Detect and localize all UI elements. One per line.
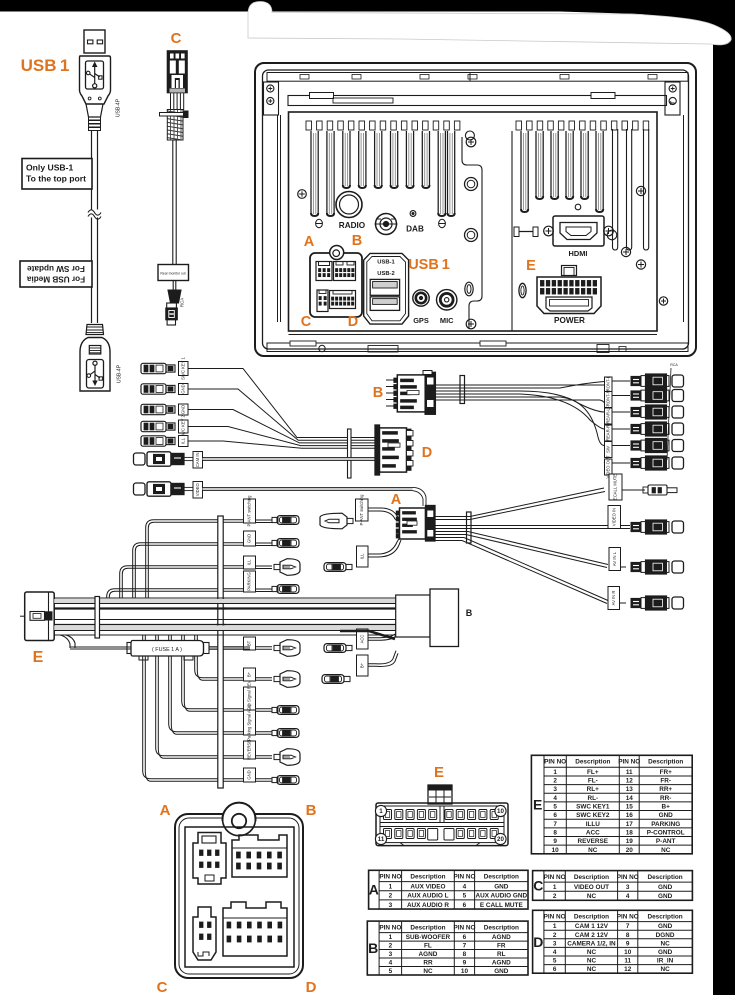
mating terminal B+	[322, 675, 344, 684]
connector B (rear)	[334, 262, 356, 281]
pin table C	[533, 871, 693, 901]
svg-text:For SW update: For SW update	[27, 264, 85, 273]
svg-text:Description: Description	[410, 873, 445, 880]
svg-text:NC: NC	[587, 893, 597, 900]
svg-text:SUB-WOOFER: SUB-WOOFER	[406, 934, 451, 941]
svg-text:E: E	[33, 649, 44, 666]
RCA plug (C cable)	[168, 290, 181, 303]
clip after B	[460, 376, 465, 404]
B pin stubs	[386, 379, 394, 381]
lead AV IN L	[609, 548, 621, 571]
svg-text:11: 11	[624, 958, 631, 965]
DAB jack	[376, 214, 397, 235]
svg-text:RL-: RL-	[587, 795, 598, 802]
USB port 2	[370, 297, 399, 311]
USB housing	[364, 253, 409, 324]
svg-text:5: 5	[463, 893, 467, 900]
bracket icon	[518, 228, 535, 236]
svg-text:3: 3	[626, 884, 630, 891]
svg-text:4: 4	[389, 960, 393, 967]
svg-text:VIDEO IN: VIDEO IN	[611, 508, 616, 526]
svg-text:SWC KEY1: SWC KEY1	[576, 804, 610, 811]
svg-text:ILLU: ILLU	[586, 821, 601, 828]
svg-text:ACC: ACC	[586, 829, 600, 836]
svg-text:AUX AUDIO L: AUX AUDIO L	[407, 893, 448, 900]
svg-text:ILL: ILL	[247, 559, 252, 565]
svg-text:B+: B+	[662, 804, 671, 811]
svg-text:NC: NC	[588, 847, 598, 854]
note box: Only USB-1 To the top port	[22, 159, 92, 190]
svg-text:AGND: AGND	[492, 934, 511, 941]
connector A (harness)	[400, 508, 426, 539]
svg-text:3: 3	[389, 951, 393, 958]
svg-text:RADIO: RADIO	[339, 221, 366, 230]
svg-text:GND: GND	[658, 923, 673, 930]
mating terminal P-CONT	[320, 513, 347, 529]
fuse lead	[60, 635, 70, 648]
svg-text:USB 1: USB 1	[21, 56, 70, 75]
left RCA lead 1	[134, 453, 146, 465]
lead PARKING	[244, 571, 256, 592]
svg-text:PIN NO: PIN NO	[617, 874, 639, 881]
svg-text:PIN NO: PIN NO	[453, 924, 475, 931]
svg-text:B+: B+	[247, 671, 252, 677]
connector D (harness)	[375, 425, 380, 475]
svg-text:MIC: MIC	[440, 316, 454, 325]
pin table D	[533, 910, 693, 973]
ISO connector D	[223, 902, 287, 956]
wire	[172, 281, 174, 291]
svg-text:DGND: DGND	[656, 932, 675, 939]
svg-text:13: 13	[626, 786, 634, 793]
connector E (harness)	[25, 592, 55, 641]
svg-text:RR+: RR+	[659, 786, 672, 793]
svg-text:SW: SW	[605, 446, 610, 453]
RCA lead REAR-R	[605, 425, 613, 441]
svg-text:E: E	[526, 258, 536, 274]
RCA lead FRONT-R	[605, 392, 613, 408]
taped bundle (hatched)	[167, 110, 183, 141]
svg-text:8: 8	[626, 932, 630, 939]
terminal lead 5	[141, 436, 166, 446]
svg-text:IR_IN: IR_IN	[657, 958, 674, 965]
top mounting rail	[288, 96, 667, 106]
svg-text:A: A	[391, 492, 402, 508]
USB port 1	[370, 279, 399, 295]
svg-text:GND: GND	[658, 893, 673, 900]
mating terminal ILL	[324, 563, 346, 572]
svg-text:HDMI: HDMI	[569, 249, 588, 258]
svg-text:FR+: FR+	[660, 769, 673, 776]
svg-text:CAM IN: CAM IN	[195, 452, 200, 467]
RCA lead SW	[605, 442, 613, 458]
lead VIDEO IN	[608, 506, 621, 529]
svg-text:1: 1	[553, 884, 557, 891]
svg-text:11: 11	[378, 836, 385, 843]
svg-text:20: 20	[497, 836, 504, 843]
svg-text:4: 4	[463, 883, 467, 890]
GPS jack	[413, 290, 429, 306]
svg-text:ILL: ILL	[180, 437, 185, 443]
svg-text:Description: Description	[648, 874, 683, 881]
svg-text:9: 9	[553, 838, 557, 845]
fuse holder ( FUSE 1 A )	[127, 643, 133, 654]
svg-text:1: 1	[389, 883, 393, 890]
connector A (rear)	[316, 262, 332, 281]
svg-text:PIN NO: PIN NO	[379, 873, 401, 880]
svg-text:9: 9	[463, 960, 467, 967]
svg-text:AUX VIDEO: AUX VIDEO	[410, 883, 445, 890]
svg-text:6: 6	[463, 934, 467, 941]
svg-text:RL+: RL+	[587, 786, 600, 793]
svg-text:FR-: FR-	[660, 778, 671, 785]
svg-text:16: 16	[626, 812, 634, 819]
svg-text:VIDEO: VIDEO	[195, 482, 200, 496]
svg-text:10: 10	[624, 949, 632, 956]
ISO connector B	[232, 835, 287, 877]
svg-text:5: 5	[553, 804, 557, 811]
screw left panel	[298, 190, 307, 199]
svg-text:10: 10	[497, 808, 504, 815]
svg-text:E: E	[533, 797, 542, 813]
svg-text:1: 1	[379, 808, 383, 815]
svg-text:CAM 2 12V: CAM 2 12V	[575, 932, 609, 939]
left RCA lead 2	[134, 483, 146, 495]
right panel screws	[636, 186, 645, 195]
svg-text:4: 4	[553, 795, 557, 802]
svg-text:( FUSE 1 A ): ( FUSE 1 A )	[152, 647, 182, 653]
MIC jack	[437, 290, 457, 310]
wire to GND lead	[133, 543, 243, 598]
svg-text:C: C	[157, 979, 168, 995]
svg-text:Description: Description	[574, 913, 609, 920]
svg-text:17: 17	[626, 821, 634, 828]
svg-text:ACC: ACC	[359, 635, 364, 644]
lead P-ANT switching	[244, 499, 256, 523]
svg-text:GPS: GPS	[413, 316, 429, 325]
wires A to AV leads	[435, 488, 604, 517]
svg-text:1: 1	[389, 934, 393, 941]
svg-text:2: 2	[553, 932, 557, 939]
lead B+	[195, 635, 243, 678]
middle recessed strip	[462, 137, 482, 329]
lead Parking Signal ACC	[169, 635, 243, 732]
clip after A	[467, 512, 472, 543]
right page black strip	[713, 0, 735, 995]
wire (C cable)	[172, 140, 174, 264]
svg-text:BT: BT	[247, 640, 252, 646]
svg-text:5: 5	[553, 958, 557, 965]
svg-text:9: 9	[626, 940, 630, 947]
lead ECALL MUTE	[609, 474, 622, 500]
svg-text:NC: NC	[661, 847, 671, 854]
svg-text:USB-1: USB-1	[377, 260, 395, 266]
B box	[396, 595, 430, 637]
RCA lead FRONT-L	[605, 377, 613, 393]
svg-text:Rear monitor out: Rear monitor out	[160, 272, 185, 276]
connector block A/B/C/D	[310, 253, 362, 317]
svg-text:To the top port: To the top port	[26, 174, 86, 184]
svg-text:NC: NC	[587, 966, 597, 973]
connector D (rear)	[330, 291, 356, 309]
svg-text:19: 19	[626, 838, 634, 845]
svg-text:PARKING: PARKING	[247, 572, 252, 591]
svg-text:GND: GND	[659, 812, 674, 819]
svg-text:E CALL MUTE: E CALL MUTE	[480, 902, 524, 909]
svg-text:P-ANT switching: P-ANT switching	[359, 494, 364, 526]
svg-text:NC: NC	[660, 940, 670, 947]
trunk crossing loom	[217, 599, 226, 603]
svg-text:B: B	[368, 940, 378, 956]
svg-text:7: 7	[626, 923, 630, 930]
terminal lead 4	[141, 421, 166, 431]
svg-text:B: B	[373, 385, 383, 401]
main rear panel	[289, 112, 658, 331]
svg-text:Description: Description	[575, 759, 610, 766]
wires B to RCA fan	[436, 384, 600, 386]
label box: rear monitor out	[158, 265, 189, 281]
svg-text:USB 1: USB 1	[408, 257, 450, 273]
svg-text:PIN NO: PIN NO	[544, 759, 566, 766]
heatsink fins left	[311, 131, 455, 216]
svg-text:AUX AUDIO R: AUX AUDIO R	[407, 902, 449, 909]
lead GND	[244, 531, 256, 546]
RCA lead REAR-L	[605, 408, 613, 424]
lead BT	[209, 646, 243, 648]
svg-text:A: A	[369, 882, 379, 898]
svg-text:1: 1	[553, 923, 557, 930]
svg-text:C: C	[171, 30, 182, 47]
svg-text:CAMERA 1/2, IN: CAMERA 1/2, IN	[567, 940, 616, 947]
chassis top thin bar	[267, 73, 688, 82]
terminal lead 1	[141, 363, 166, 373]
page header black band	[0, 0, 735, 12]
svg-text:NC: NC	[660, 966, 670, 973]
E pins row 2	[384, 829, 392, 839]
svg-text:AUX AUDIO GND: AUX AUDIO GND	[475, 893, 527, 900]
terminal lead 2	[141, 384, 166, 394]
connector C (rear)	[317, 290, 328, 312]
svg-text:POWER: POWER	[554, 316, 585, 325]
svg-text:Description: Description	[648, 759, 683, 766]
svg-text:A: A	[160, 802, 171, 819]
svg-text:SWC KEY 2: SWC KEY 2	[180, 414, 185, 437]
svg-text:DAB: DAB	[406, 225, 424, 234]
svg-text:10: 10	[552, 847, 560, 854]
svg-text:PIN NO: PIN NO	[618, 759, 640, 766]
svg-text:15: 15	[626, 804, 634, 811]
svg-text:ILL: ILL	[359, 553, 364, 559]
svg-text:B+: B+	[359, 662, 364, 668]
svg-text:2: 2	[553, 778, 557, 785]
wire to P-ANT switching lead	[146, 520, 243, 598]
svg-text:REAR-L: REAR-L	[605, 408, 610, 424]
svg-text:6: 6	[553, 812, 557, 819]
svg-text:8: 8	[553, 829, 557, 836]
svg-text:AV IN R: AV IN R	[611, 591, 616, 606]
wire to PARKING lead	[107, 589, 243, 598]
svg-text:3: 3	[553, 786, 557, 793]
svg-text:4: 4	[626, 893, 630, 900]
svg-text:Description: Description	[574, 874, 609, 881]
svg-text:PIN NO: PIN NO	[544, 874, 566, 881]
svg-text:12: 12	[624, 966, 632, 973]
svg-text:PARKING: PARKING	[651, 821, 680, 828]
svg-text:RCA: RCA	[180, 298, 185, 307]
E pins row 1	[384, 810, 392, 820]
svg-text:FL-: FL-	[588, 778, 598, 785]
svg-text:REVERSE: REVERSE	[247, 740, 252, 760]
svg-text:REAR-R: REAR-R	[605, 425, 610, 441]
svg-text:PIN NO: PIN NO	[544, 913, 566, 920]
bottom rail	[289, 334, 658, 336]
svg-text:GND: GND	[658, 949, 673, 956]
wire	[188, 441, 376, 448]
svg-text:14: 14	[626, 795, 634, 802]
svg-text:Only USB-1: Only USB-1	[26, 163, 73, 173]
svg-text:B: B	[352, 233, 362, 249]
cable tie pin	[160, 113, 184, 117]
svg-text:GND: GND	[494, 883, 509, 890]
svg-text:FL: FL	[424, 943, 432, 950]
svg-text:2: 2	[389, 893, 393, 900]
USB cable strain relief	[86, 104, 103, 117]
svg-text:C: C	[301, 314, 312, 330]
svg-text:8: 8	[463, 951, 467, 958]
svg-text:RR: RR	[423, 960, 433, 967]
RADIO antenna jack	[336, 192, 362, 218]
svg-text:USB-2: USB-2	[377, 271, 394, 277]
mount bracket screws top-left	[264, 82, 279, 115]
connector C cable head	[168, 51, 188, 93]
svg-text:PIN NO: PIN NO	[379, 924, 401, 931]
svg-text:18: 18	[626, 829, 634, 836]
svg-text:AGND: AGND	[419, 951, 438, 958]
svg-text:A: A	[304, 234, 315, 250]
svg-text:11: 11	[626, 769, 633, 776]
trunk wires	[54, 599, 396, 603]
svg-text:10: 10	[461, 968, 469, 975]
svg-text:7: 7	[463, 943, 467, 950]
HDMI port	[553, 216, 604, 246]
svg-text:GND: GND	[180, 384, 185, 393]
hole above HDMI	[575, 204, 581, 210]
svg-text:P-ANT: P-ANT	[656, 838, 676, 845]
ISO connector C	[193, 907, 216, 960]
wire	[188, 427, 376, 446]
svg-text:4: 4	[553, 949, 557, 956]
vertical loom	[218, 516, 223, 788]
small oval screws	[316, 219, 323, 227]
lead REVERSE	[156, 635, 243, 756]
svg-text:PIN NO: PIN NO	[617, 913, 639, 920]
svg-text:GND: GND	[658, 884, 673, 891]
wire (USB cable)	[91, 131, 93, 324]
ISO connector A	[193, 833, 226, 885]
wires from C head	[170, 93, 172, 110]
terminal lead 3	[141, 404, 166, 414]
svg-text:ECALL MUTE: ECALL MUTE	[613, 474, 618, 500]
USB-A male connector	[80, 30, 111, 104]
wire	[188, 410, 376, 443]
svg-text:20: 20	[626, 847, 634, 854]
heatsink comb row	[306, 121, 649, 130]
pin table E	[531, 755, 692, 854]
svg-text:NC: NC	[587, 958, 597, 965]
lead Back-up Signal REV	[182, 635, 243, 709]
svg-text:D: D	[422, 445, 432, 461]
pin table A	[369, 870, 528, 909]
svg-text:Description: Description	[648, 913, 683, 920]
svg-text:PIN NO: PIN NO	[453, 873, 475, 880]
svg-text:SWC KEY 1: SWC KEY 1	[180, 356, 185, 379]
lead ILL	[244, 556, 256, 569]
svg-text:FL+: FL+	[587, 769, 599, 776]
svg-text:GND: GND	[247, 770, 252, 779]
svg-text:GND: GND	[180, 405, 185, 414]
svg-text:FRONT-R: FRONT-R	[605, 390, 610, 409]
black wire to B box	[340, 631, 395, 639]
svg-text:E: E	[434, 764, 444, 781]
svg-text:VIDEO OUT: VIDEO OUT	[574, 884, 609, 891]
svg-text:FR: FR	[497, 943, 506, 950]
trunk clip	[95, 597, 100, 639]
svg-text:Description: Description	[484, 924, 519, 931]
svg-text:C: C	[533, 877, 543, 893]
lead GND	[143, 635, 243, 779]
svg-text:SWC KEY2: SWC KEY2	[576, 812, 610, 819]
svg-text:AV IN L: AV IN L	[612, 551, 617, 566]
svg-text:NC: NC	[587, 949, 597, 956]
svg-text:2: 2	[389, 943, 393, 950]
wire to ILL lead	[120, 566, 243, 598]
svg-text:AGND: AGND	[492, 960, 511, 967]
lead AV IN R	[608, 587, 620, 610]
svg-text:USB-4P: USB-4P	[116, 98, 122, 117]
svg-text:For USB Media: For USB Media	[26, 275, 85, 284]
RCA lead VIDEO OUT	[605, 459, 613, 475]
wire	[188, 369, 376, 438]
mount bracket screws top-right	[665, 82, 680, 115]
svg-text:Description: Description	[484, 873, 519, 880]
POWER connector	[562, 266, 577, 276]
svg-text:B: B	[466, 608, 473, 618]
heatsink fins right	[521, 131, 603, 212]
svg-text:6: 6	[463, 902, 467, 909]
svg-text:Parking Signal ACC: Parking Signal ACC	[247, 704, 252, 741]
svg-text:6: 6	[553, 966, 557, 973]
svg-text:CAM 1 12V: CAM 1 12V	[575, 923, 609, 930]
svg-text:2: 2	[553, 893, 557, 900]
svg-text:GND: GND	[494, 968, 509, 975]
svg-text:D: D	[348, 314, 358, 330]
svg-text:RL: RL	[497, 951, 506, 958]
pin number badges	[375, 805, 386, 816]
svg-text:B: B	[306, 802, 317, 819]
clip on bundle before D	[348, 429, 352, 478]
svg-text:RCA: RCA	[670, 363, 678, 367]
svg-text:5: 5	[389, 968, 393, 975]
svg-text:Description: Description	[410, 924, 445, 931]
note box: For USB Media / For SW update (rotated)	[20, 261, 92, 287]
pin table B	[367, 921, 528, 975]
svg-text:D: D	[533, 934, 543, 950]
svg-text:P-ANT switching: P-ANT switching	[247, 495, 252, 527]
USB-A female connector	[86, 325, 104, 335]
svg-text:NC: NC	[423, 968, 433, 975]
mating terminal ACC	[324, 644, 346, 653]
long side slots right	[613, 129, 618, 250]
